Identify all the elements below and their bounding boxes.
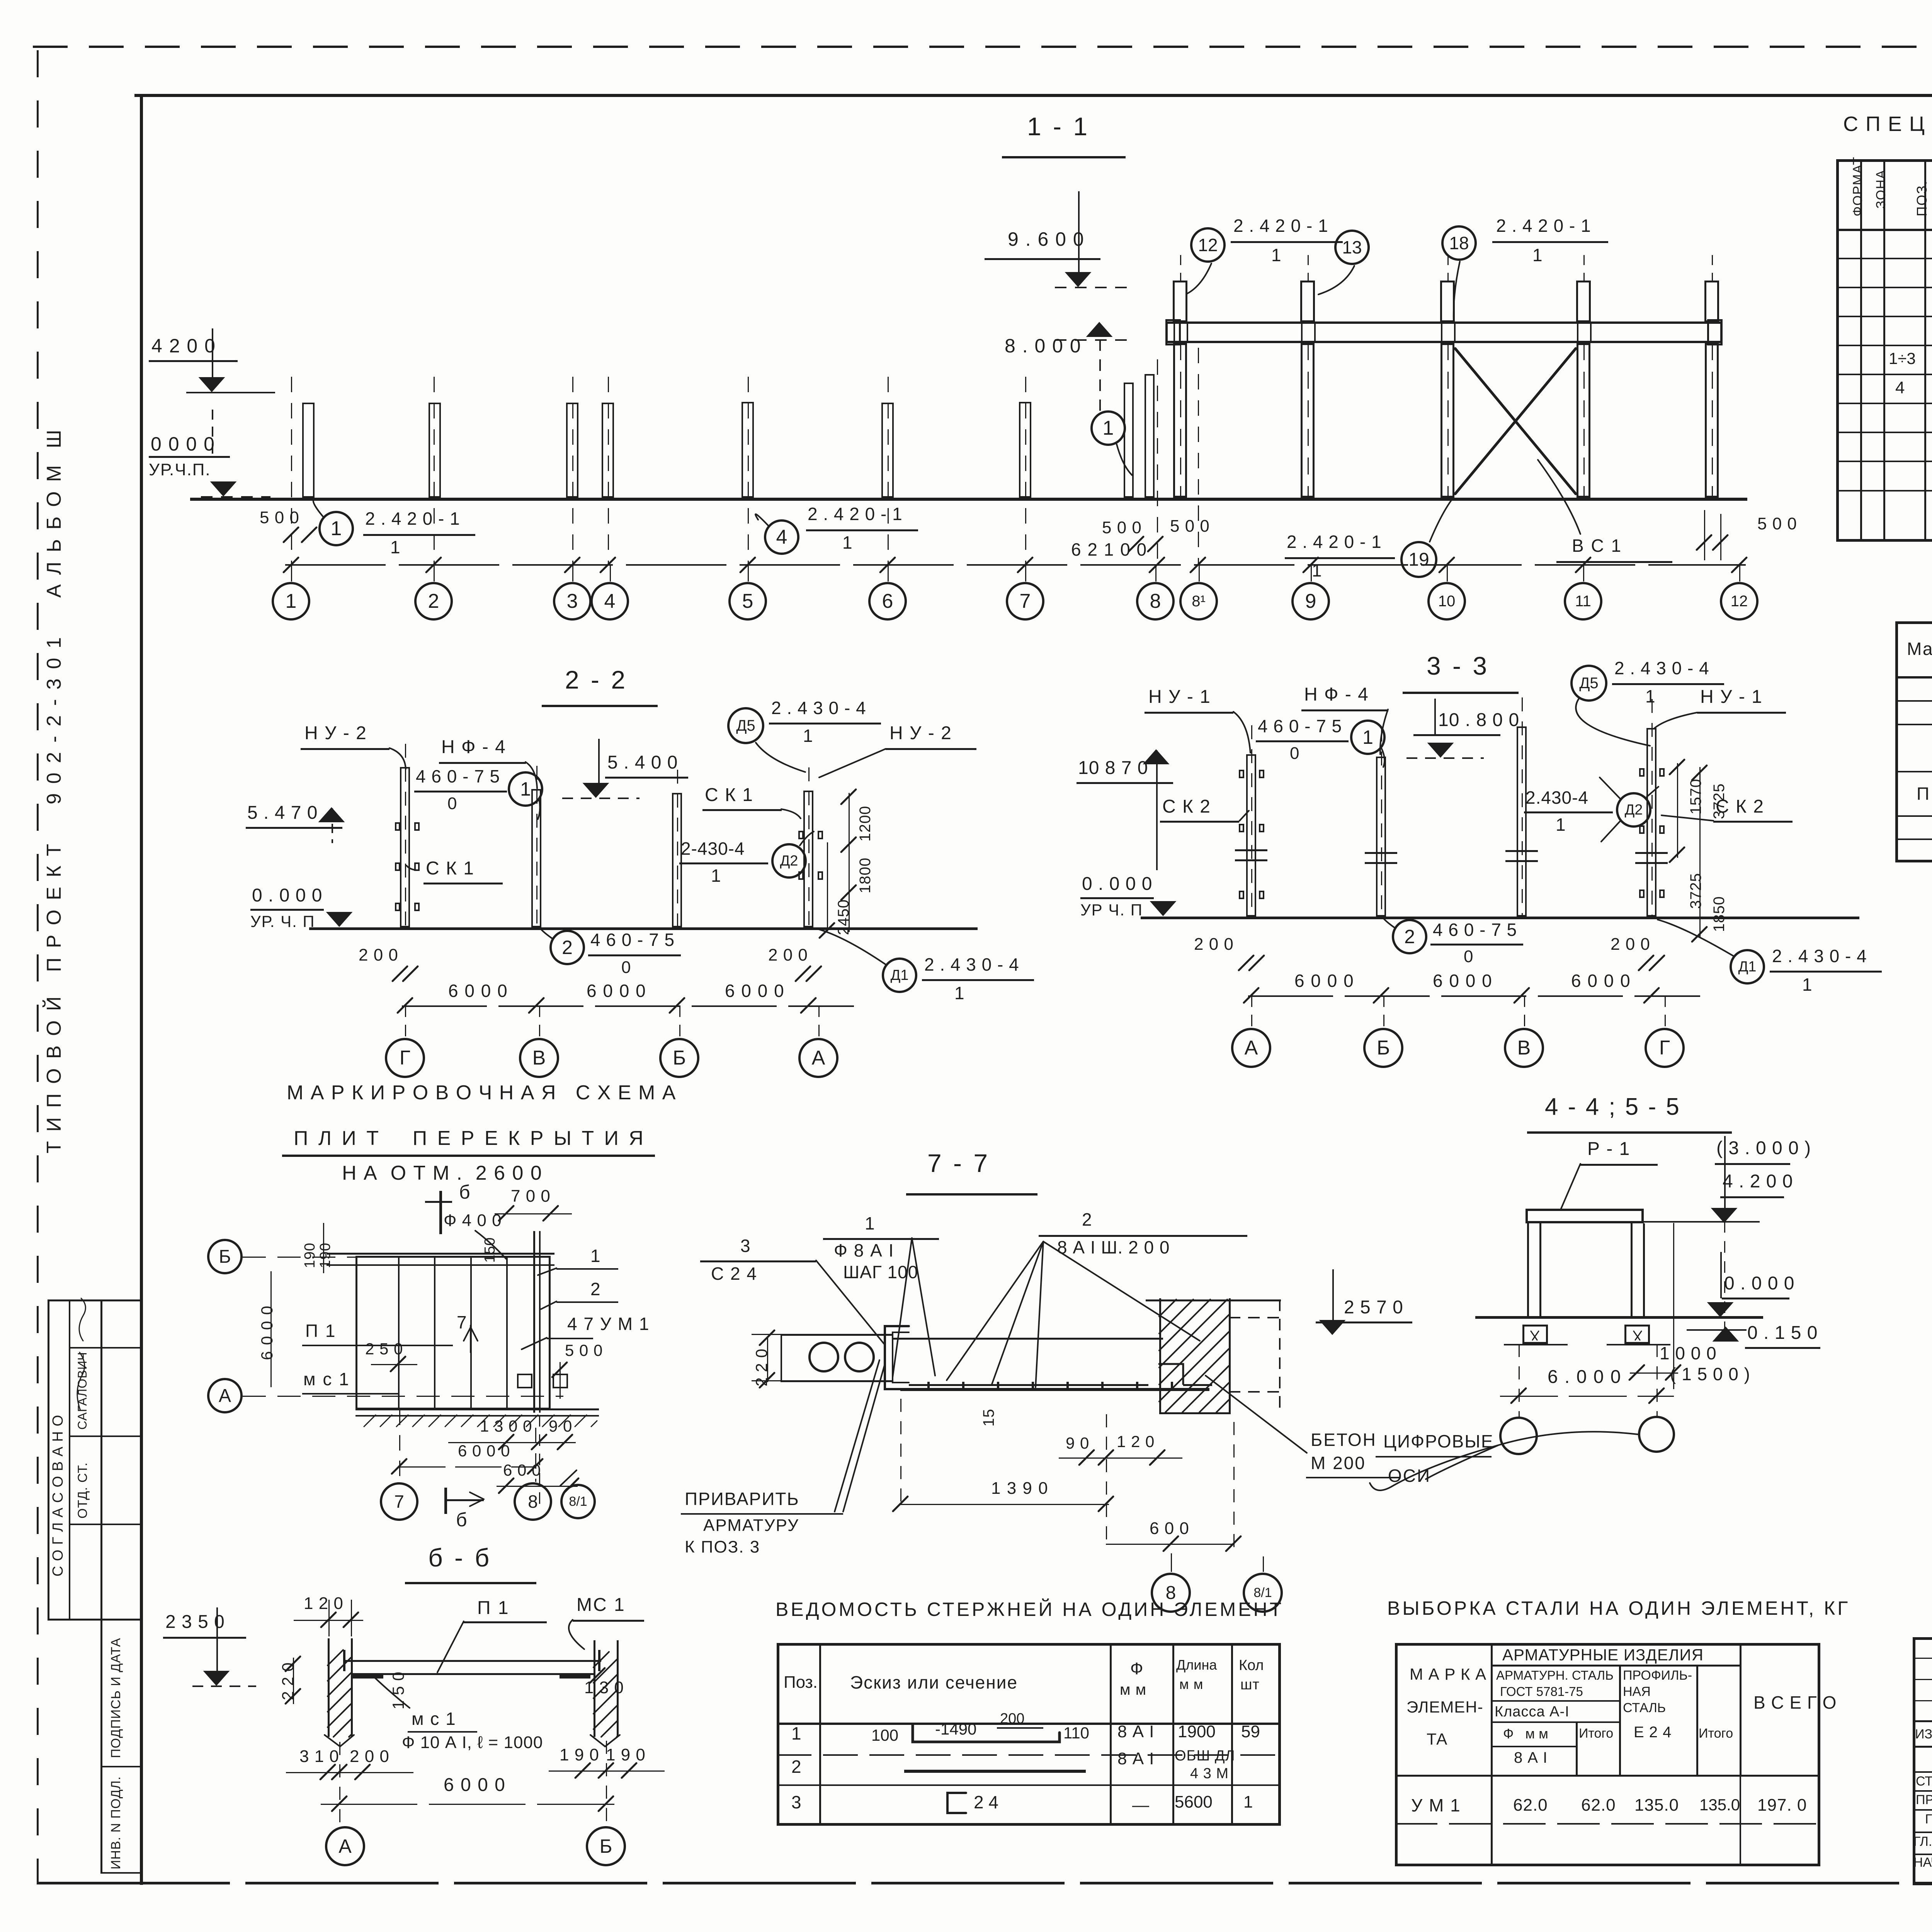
marking plan label 47 УМ1 (567, 1315, 650, 1334)
marking plan bottom band (355, 1408, 599, 1410)
vyborka vsego column line (1740, 1643, 1742, 1775)
section 7-7 dashed extension lines right (1229, 1317, 1281, 1318)
marking plan top beam band (327, 1253, 554, 1255)
title block staff row lines (1913, 1771, 1932, 1773)
section 2-2 ground line (309, 927, 978, 930)
marking scheme title line 2 (294, 1128, 646, 1149)
left margin stamp text Инв N подл (109, 1776, 123, 1869)
marking plan panel joint lines (398, 1257, 400, 1408)
section 1-1 level 9.600 (1008, 229, 1085, 250)
section 6-6 right wall hatched (594, 1640, 595, 1737)
vyborka header vsego (1753, 1693, 1837, 1713)
section 2-2 callout 2-430-4 Д2 (681, 839, 745, 859)
section 4-4 level 0.000 (1724, 1274, 1794, 1294)
left margin stamp text Сагалович (76, 1352, 89, 1430)
section 7-7 bottom rebar (900, 1388, 1209, 1391)
marking plan axis circles Б and А (207, 1239, 243, 1274)
vedomost table title (776, 1599, 1284, 1620)
section 3-3 label НФ-4 (1304, 685, 1369, 705)
section 7-7 note Приварить арматуру к поз 3 (685, 1490, 799, 1509)
section 7-7 label Цифровые оси (1383, 1432, 1494, 1451)
section 2-2 dims 6000 (448, 981, 508, 1001)
marking plan label П1 (305, 1321, 336, 1341)
section 3-3 level 10.800 (1438, 710, 1519, 730)
section 3-3 right vertical dims (1688, 779, 1704, 815)
section 7-7 label Бетон М200 (1311, 1430, 1377, 1450)
section 4-4 level 0.150 (1747, 1323, 1818, 1343)
section 1-1 title (1027, 113, 1090, 140)
section 6-6 label П 1 (477, 1598, 510, 1618)
vyborka table frame (1395, 1643, 1820, 1866)
section 2-2 dim 200 right (768, 946, 808, 964)
section 3-3 level 10 870 (1078, 758, 1148, 778)
vyborka header f mm itogo (1576, 1721, 1578, 1775)
spec table 2 header texts (1907, 639, 1932, 659)
main frame left line (140, 94, 143, 1885)
vyborka data row УМ1 (1411, 1796, 1461, 1815)
section 4-4 label 4.200 (1723, 1172, 1793, 1192)
vedomost row 3 pos (791, 1793, 801, 1812)
spec table 2 row П1 (1917, 784, 1932, 804)
section 2-2 label НУ-2 left (304, 723, 367, 743)
section 1-1 column axis dashed lines (291, 377, 292, 564)
section 2-2 dim 200 left (359, 946, 398, 964)
vyborka marka column line (1491, 1643, 1493, 1866)
spec table 1 header bottom line (1836, 229, 1932, 231)
section 3-3 dims 6000 (1294, 971, 1354, 991)
section 6-6 level 2 350 (165, 1612, 225, 1632)
section 1-1 axis-8 column pair (1124, 383, 1134, 498)
vedomost row 3 sketch channel (974, 1793, 998, 1812)
section 1-1 callout circle 1 left (318, 511, 354, 546)
section 1-1 level 0.000 left (151, 434, 215, 454)
left margin stamp text ОТД.СТ. (76, 1462, 90, 1519)
section 2-2 grid circles (405, 1005, 406, 1038)
vyborka header profilnaya (1623, 1668, 1692, 1683)
section 2-2 level 5.470 (247, 803, 318, 823)
section 4-4 dim 6.000 (1548, 1367, 1621, 1387)
vedomost row 1 sketch bent bar (871, 1726, 898, 1744)
section 2-2 label СК 1 right (705, 785, 753, 805)
section 1-1 dim 500 right (1757, 515, 1797, 533)
spec table 1 row 4 КЖ-29 соединительные (1895, 379, 1905, 397)
marking plan rotated dims 190 190 (302, 1243, 318, 1268)
section 6-6 title (428, 1544, 492, 1571)
marking plan dim 600 (503, 1461, 541, 1479)
section 7-7 level 2 570 (1344, 1298, 1403, 1318)
section 6-6 rotated dim 150 (389, 1672, 407, 1709)
section 1-1 grid circles (291, 564, 292, 582)
marking plan slab outline (355, 1256, 551, 1410)
title block header texts izm list dokum (1915, 1727, 1932, 1742)
left margin stamp table (48, 1299, 49, 1619)
section 7-7 right wall hatched (1159, 1298, 1161, 1414)
section 1-1 callout circle 4 (764, 519, 799, 555)
spec table 1 column lines (1860, 159, 1862, 542)
marking plan section mark б top (439, 1191, 442, 1234)
marking plan small rect um1 (517, 1374, 532, 1388)
section 3-3 label НУ-1 right (1700, 687, 1763, 707)
section 3-3 column splice ticks (1235, 849, 1267, 851)
section 3-3 label СК 2 right (1716, 797, 1764, 817)
section 6-6 labels МС1 Ф10АI (412, 1709, 456, 1729)
marking plan section mark б bottom (444, 1488, 447, 1514)
section 1-1 level 8.000 (1005, 335, 1082, 356)
section 6-6 dim 130 (584, 1679, 624, 1697)
section 1-1 tall columns under beam (1173, 343, 1187, 498)
marking plan dim 6000 bottom (458, 1442, 510, 1459)
section 6-6 label МС 1 right (577, 1595, 626, 1615)
section 7-7 rotated dim 220 (753, 1349, 770, 1386)
section 7-7 dim 600 (1150, 1519, 1189, 1538)
vyborka header armature box (1491, 1665, 1740, 1667)
section 4-4 footings (1522, 1325, 1548, 1344)
outer top dashed border line (33, 46, 1932, 48)
spec table 2 header bottom line (1895, 676, 1932, 679)
section 7-7 title (927, 1150, 990, 1177)
section 6-6 dims 190 190 (560, 1746, 599, 1764)
vyborka bottom row line (1395, 1823, 1820, 1825)
marking plan label Ф400 (444, 1211, 502, 1230)
marking scheme title line 1 (287, 1082, 676, 1104)
marking plan um1 strip lines (506, 1257, 508, 1408)
vedomost table frame (777, 1643, 1281, 1826)
section 7-7 hollow core plate outline (781, 1334, 893, 1336)
section 3-3 callout 2.430-4 Д2 (1526, 788, 1588, 808)
section 3-3 callout Д1 2.430-4 (1730, 949, 1765, 985)
section 7-7 callout 3 С24 (740, 1236, 750, 1256)
marking plan grid circles 7 8 8/1 (380, 1482, 418, 1521)
vedomost table column lines (819, 1643, 821, 1826)
section 3-3 dimension line (1248, 995, 1700, 997)
main frame top line (134, 94, 1932, 97)
section 1-1 dimension line (285, 564, 1746, 566)
section 6-6 end plates (352, 1675, 383, 1679)
section 6-6 slab lines (343, 1660, 601, 1662)
vedomost header texts (784, 1673, 818, 1692)
section 1-1 dim 62100 (1071, 540, 1147, 560)
section 2-2 level 0.000 (252, 886, 322, 906)
section 1-1 column stubs above beam (1173, 281, 1187, 322)
section 3-3 title (1427, 652, 1489, 680)
left margin stamp text Подпись и дата (109, 1638, 123, 1758)
vedomost row 2 pos (791, 1757, 801, 1777)
section 3-3 callout circle 2 460-75 (1392, 919, 1427, 954)
section 1-1 callout 2.420-1 with circle 19 (1287, 532, 1382, 552)
section 1-1 callout circles 12 13 18 above beam (1190, 227, 1226, 263)
vyborka header armatura stal (1619, 1665, 1621, 1775)
section 7-7 callout 2 8АI ш200 (1082, 1210, 1092, 1230)
section 2-2 label НФ-4 (441, 737, 506, 757)
marking plan dim 500 (565, 1342, 603, 1359)
section 2-2 right vertical dims 1200 1800 2450 (857, 806, 874, 842)
section 7-7 rotated dim 15 (981, 1409, 997, 1427)
vyborka table title (1387, 1598, 1850, 1619)
vedomost row 2 sketch line (904, 1770, 1086, 1773)
marking plan dim 1300 90 (480, 1417, 532, 1435)
section 2-2 label НУ-2 right (889, 723, 952, 743)
vyborka data separator (1395, 1775, 1820, 1777)
section 2-2 title (565, 666, 628, 694)
section 2-2 callout 460-75 0 circle 1 (416, 767, 500, 786)
section 7-7 wall notch step (1183, 1384, 1212, 1386)
section 2-2 callout Д1 2.430-4 (882, 957, 917, 993)
section 1-1 level 4.200 left (151, 335, 216, 356)
section 3-3 callout Д5 2.430-4 top right (1570, 665, 1607, 702)
section 3-3 columns (1246, 754, 1256, 917)
section 4-4 label (3.000) (1716, 1138, 1811, 1158)
section 2-2 level 5.400 (607, 753, 678, 773)
section 4-4 ground line (1475, 1316, 1763, 1319)
marking plan rotated dim 6000 (258, 1305, 276, 1360)
section 1-1 dims 500 at axis 8 (1102, 519, 1142, 537)
section 4-4 5-5 title (1545, 1094, 1681, 1120)
section 6-6 rotated dim 220 (279, 1662, 296, 1700)
section 1-1 label ВС1 (1572, 536, 1622, 556)
spec table 1 outer frame (1836, 159, 1932, 542)
section 7-7 monolithic slab lines (893, 1338, 1163, 1340)
vedomost row 1 data (1117, 1723, 1155, 1741)
vyborka header marka elementa (1410, 1665, 1486, 1683)
section 4-4 portal beam (1526, 1209, 1644, 1223)
section 3-3 label СК 2 left (1162, 797, 1211, 817)
section 3-3 level 0.000 (1082, 874, 1152, 894)
section 6-6 dim 6000 (444, 1775, 506, 1795)
section 3-3 bracket marks column Г (1639, 768, 1645, 777)
section 6-6 dim 120 (304, 1594, 344, 1613)
vedomost row 2 data (1117, 1750, 1155, 1768)
section 3-3 callout 460-75 0 circle 1 (1258, 717, 1342, 736)
outer left dashed border line (37, 50, 39, 1882)
section 1-1 elevated beam (1165, 321, 1723, 343)
section 2-2 callout circle 2 460-75 (549, 930, 585, 965)
spec table 1 row 1-3 КЖ-29 стержни (1889, 350, 1916, 367)
section 2-2 bracket marks on column А (798, 831, 804, 839)
section 4-4 axis circles (1499, 1417, 1538, 1455)
vedomost row 1 pos (791, 1724, 801, 1743)
section 6-6 left wall hatched (328, 1638, 330, 1737)
section 1-1 label 500 axis1 (260, 509, 299, 527)
section 2-2 dimension line (402, 1005, 854, 1007)
section 1-1 beam support ticks (1173, 321, 1175, 343)
marking plan dim 700 (511, 1187, 551, 1206)
section 2-2 callout 2.430-4 circle Д5 (727, 707, 764, 744)
marking plan label МС1 (303, 1370, 350, 1389)
section 6-6 grid circles А Б (325, 1826, 365, 1866)
title block staff names (1916, 1774, 1932, 1789)
section 3-3 dim 200 left (1194, 935, 1234, 954)
section 7-7 grid circles 8 8/1 (1151, 1573, 1191, 1613)
section 4-4 portal legs (1527, 1223, 1529, 1318)
vedomost row 3 data (1132, 1796, 1149, 1815)
marking plan label 7 arrow (457, 1313, 467, 1332)
section 4-4 label Р-1 (1587, 1139, 1630, 1159)
left margin vertical text Типовой проект 902-2-301 Альбом III (43, 428, 65, 1153)
marking plan rotated dim 150 (482, 1237, 498, 1263)
section 2-2 label СК 1 left (426, 859, 474, 879)
spec table 1 title (1843, 113, 1932, 135)
left margin stamp text СОГЛАСОВАНО (50, 1415, 66, 1577)
main frame bottom line (37, 1882, 1932, 1884)
marking scheme title line 3 (342, 1162, 543, 1184)
section 1-1 callout circle 1 at axis 8 (1090, 410, 1126, 446)
section 3-3 grid circles (1251, 995, 1252, 1028)
section 3-3 ground line (1141, 917, 1859, 919)
section 4-4 dim 1000 (1500) (1660, 1344, 1717, 1363)
section 7-7 plate circles (808, 1342, 839, 1372)
section 6-6 dims 310 200 (299, 1747, 339, 1766)
section 1-1 beam end blocks (1165, 319, 1181, 345)
spec table 2 row lines (1895, 700, 1932, 702)
section 7-7 dim 1390 (991, 1479, 1049, 1498)
vedomost table header bottom (777, 1723, 1281, 1725)
title block change rows dashed (1913, 1658, 1932, 1659)
section 3-3 dim 200 right (1611, 935, 1650, 954)
section 2-2 columns (400, 767, 410, 927)
marking plan leaders 1 2 (590, 1247, 600, 1266)
vedomost table row lines (777, 1754, 1281, 1756)
section 2-2 bracket marks on column Г (395, 822, 400, 831)
spec table 1 header texts (1851, 156, 1865, 216)
section 7-7 dims 90 120 (1066, 1434, 1089, 1452)
section 3-3 bracket marks column А (1239, 770, 1244, 778)
title block outer frame (1913, 1637, 1932, 1885)
spec table 1 row lines (1836, 258, 1932, 259)
title block change header row (1913, 1720, 1932, 1722)
marking plan dim 250 (365, 1340, 403, 1357)
section 1-1 short columns (302, 403, 315, 498)
spec table 2 outer frame (1895, 621, 1932, 862)
section 1-1 ground line (190, 498, 1747, 501)
section 3-3 label НУ-1 left (1148, 687, 1211, 707)
section 7-7 callout 1 Ф8АI шаг100 (865, 1214, 875, 1233)
